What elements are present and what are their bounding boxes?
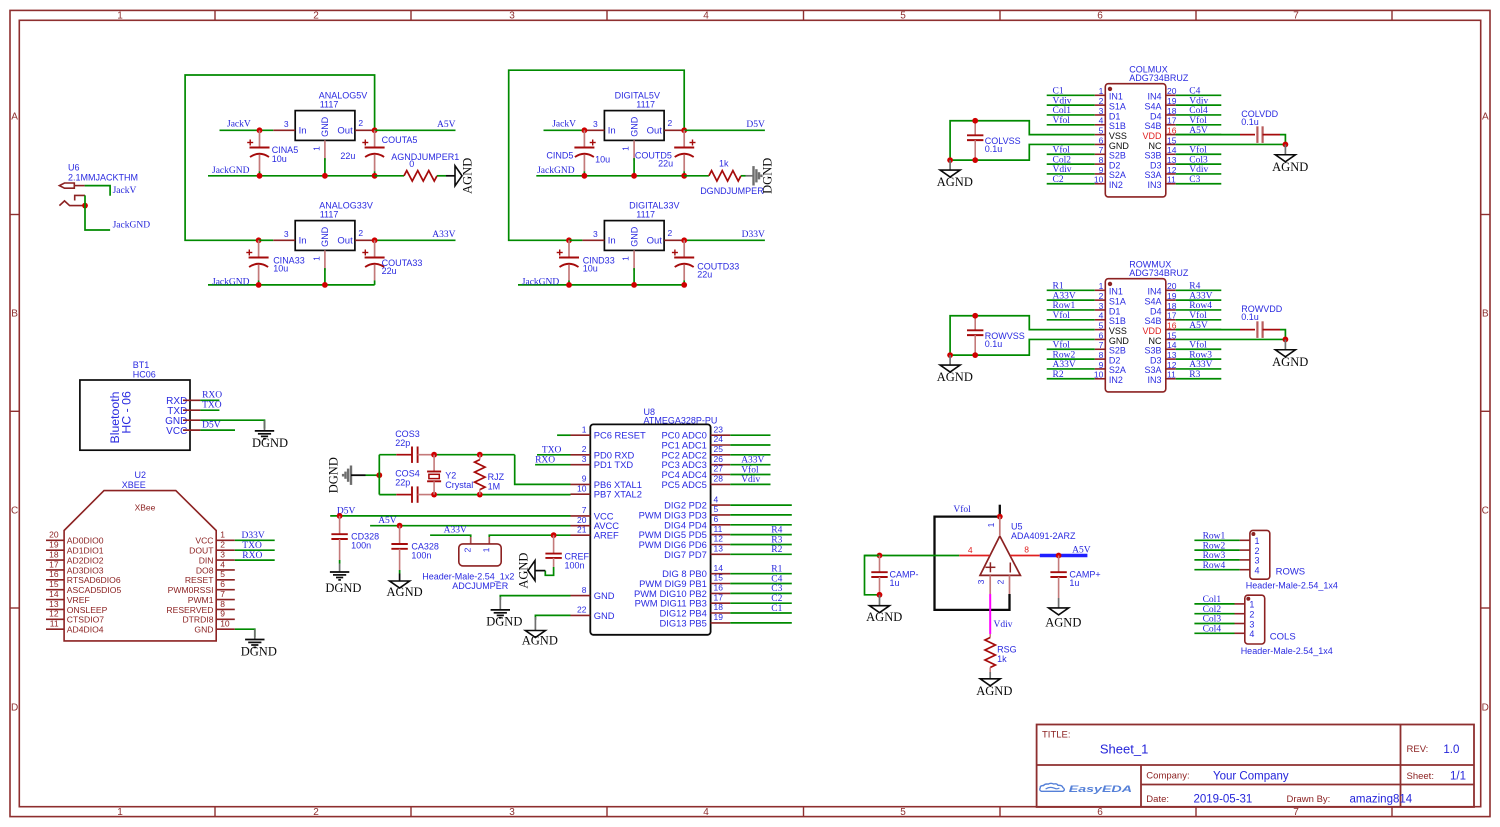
svg-text:12: 12 bbox=[49, 609, 59, 619]
wire U8 pin 6 bbox=[730, 524, 792, 526]
svg-text:JackGND: JackGND bbox=[113, 221, 151, 231]
svg-text:7: 7 bbox=[1099, 145, 1104, 155]
svg-text:AD2DIO2: AD2DIO2 bbox=[67, 555, 104, 565]
svg-text:D1: D1 bbox=[1109, 111, 1121, 121]
svg-text:Row3: Row3 bbox=[1189, 350, 1212, 360]
svg-text:DGND: DGND bbox=[325, 581, 361, 595]
svg-text:Col4: Col4 bbox=[1203, 625, 1222, 635]
svg-text:R3: R3 bbox=[1189, 370, 1200, 380]
pin 6 GND of ROWMUX bbox=[1095, 330, 1130, 345]
net label Vfol at COLMUX pin 7 bbox=[1053, 144, 1071, 155]
svg-text:22: 22 bbox=[577, 605, 587, 615]
wire JackV to DIGITAL5V In bbox=[544, 129, 583, 131]
junction COUTD33 top bbox=[681, 237, 687, 243]
pin 14 S3B of COLMUX bbox=[1144, 145, 1176, 160]
svg-text:D5V: D5V bbox=[202, 421, 221, 431]
wire ROWMUX VSS to AGND bbox=[949, 355, 951, 365]
svg-text:A33V: A33V bbox=[444, 526, 467, 536]
wire D5V feedback loop to DIGITAL33V input bbox=[509, 70, 685, 240]
svg-text:20: 20 bbox=[49, 530, 59, 540]
svg-text:1u: 1u bbox=[890, 578, 900, 588]
pin 26 PC3 ADC3 of U8 bbox=[662, 454, 731, 470]
pin 3 PD1 TXD of U8 bbox=[571, 454, 634, 470]
svg-text:7: 7 bbox=[1293, 807, 1299, 818]
svg-text:DGND: DGND bbox=[486, 615, 522, 629]
ground AGND at U8 pin 22 bbox=[522, 631, 558, 648]
net label A5V bbox=[437, 120, 456, 130]
net label Vfol at ROWMUX pin 17 bbox=[1189, 310, 1207, 321]
svg-text:GND: GND bbox=[320, 226, 330, 247]
svg-text:D: D bbox=[1482, 703, 1489, 714]
svg-text:100n: 100n bbox=[411, 550, 431, 560]
svg-text:17: 17 bbox=[1167, 116, 1177, 126]
net label C4 at COLMUX pin 20 bbox=[1189, 87, 1200, 97]
svg-text:19: 19 bbox=[1167, 291, 1177, 301]
wire U8 pin 18 bbox=[730, 612, 792, 614]
svg-text:8: 8 bbox=[582, 585, 587, 595]
wire U8 pin 25 bbox=[730, 454, 770, 456]
svg-text:VSS: VSS bbox=[1109, 326, 1127, 336]
svg-text:Col1: Col1 bbox=[1053, 106, 1072, 116]
title text Company bbox=[1146, 770, 1289, 782]
svg-text:1k: 1k bbox=[997, 654, 1007, 664]
wire Col4 to COLS pin 4 bbox=[1194, 632, 1234, 634]
svg-text:AD4DIO4: AD4DIO4 bbox=[67, 625, 104, 635]
svg-text:C4: C4 bbox=[1189, 87, 1200, 97]
svg-text:1: 1 bbox=[1099, 86, 1104, 96]
svg-text:PC5 ADC5: PC5 ADC5 bbox=[662, 479, 707, 490]
wire U8 pin 17 bbox=[730, 602, 792, 604]
pin 12 CTSDIO7 of U2 bbox=[46, 609, 104, 625]
svg-text:18: 18 bbox=[714, 602, 724, 612]
capacitor CIND33 10u bbox=[557, 240, 615, 285]
svg-text:DGND: DGND bbox=[327, 457, 341, 493]
pin 1 VCC of U2 bbox=[195, 530, 234, 546]
svg-text:Vdiv: Vdiv bbox=[741, 475, 760, 485]
svg-text:Sheet:: Sheet: bbox=[1407, 771, 1434, 782]
wire A5V to COLMUX pin 16 bbox=[1176, 134, 1222, 136]
wire C1 to COLMUX pin 1 bbox=[1047, 94, 1095, 96]
connector U6 2.1MMJACKTHM bbox=[59, 163, 138, 206]
header ROWS Header-Male-2.54_1x4 bbox=[1246, 530, 1338, 590]
capacitor CINA33 10u bbox=[246, 240, 304, 285]
svg-text:Vdiv: Vdiv bbox=[994, 620, 1013, 630]
wire CAMP- to U5 pin 4 bbox=[865, 555, 960, 557]
wire JackGND digital 5V rail bbox=[536, 175, 684, 177]
svg-text:GND: GND bbox=[594, 610, 615, 621]
net label Vfol at COLMUX pin 4 bbox=[1053, 115, 1071, 126]
net label JackGND at U6 bbox=[113, 221, 151, 231]
svg-text:10: 10 bbox=[220, 619, 230, 629]
svg-text:TXO: TXO bbox=[202, 401, 222, 411]
svg-text:10u: 10u bbox=[583, 264, 598, 274]
svg-text:IN3: IN3 bbox=[1147, 180, 1161, 190]
svg-text:D2: D2 bbox=[1109, 355, 1121, 365]
net label Vfol at COLMUX pin 14 bbox=[1189, 144, 1207, 155]
wire Row1 to ROWMUX pin 3 bbox=[1047, 309, 1095, 311]
pin 12 S3A of ROWMUX bbox=[1144, 360, 1176, 375]
junction COLVDD NC bbox=[1283, 142, 1289, 148]
wire JackGND from U6 bbox=[85, 195, 110, 230]
svg-text:D33V: D33V bbox=[242, 531, 265, 541]
wire AREF to ADCJUMPER pin 1 bbox=[489, 535, 570, 544]
svg-text:Col2: Col2 bbox=[1203, 605, 1222, 615]
wire A33V to ADCJUMPER pin 2 bbox=[430, 535, 471, 544]
svg-text:S4A: S4A bbox=[1144, 296, 1161, 306]
net label Vdiv at U8 pin 28 bbox=[741, 475, 760, 485]
svg-text:C3: C3 bbox=[771, 584, 782, 594]
pin 11 AD4DIO4 of U2 bbox=[46, 619, 104, 635]
wire Row3 to ROWS pin 3 bbox=[1194, 559, 1239, 561]
net label JackV at DIGITAL5V bbox=[552, 119, 576, 129]
svg-text:AD1DIO1: AD1DIO1 bbox=[67, 546, 104, 556]
svg-text:23: 23 bbox=[714, 424, 724, 434]
net label Col3 bbox=[1203, 615, 1222, 625]
net label C2 at U8 pin 17 bbox=[771, 594, 782, 604]
svg-text:A33V: A33V bbox=[1053, 291, 1076, 301]
pin 6 PWM0RSSI of U2 bbox=[168, 579, 235, 595]
svg-text:9: 9 bbox=[1099, 360, 1104, 370]
pin 6 DIG4 PD4 of U8 bbox=[664, 514, 730, 530]
wire D5V output bbox=[684, 129, 765, 131]
wire A33V to ROWMUX pin 12 bbox=[1176, 368, 1222, 370]
svg-text:10: 10 bbox=[577, 483, 587, 493]
svg-text:17: 17 bbox=[1167, 311, 1177, 321]
svg-text:D: D bbox=[11, 703, 18, 714]
capacitor COS4 22p bbox=[395, 468, 434, 502]
svg-text:XBEE: XBEE bbox=[122, 480, 146, 490]
net label C2 at COLMUX pin 10 bbox=[1053, 175, 1064, 185]
wire XTAL1 jog to PB6 bbox=[515, 455, 571, 485]
net label R1 at ROWMUX pin 1 bbox=[1053, 282, 1064, 292]
pin 9 PB6 XTAL1 of U8 bbox=[571, 474, 642, 490]
svg-text:26: 26 bbox=[714, 454, 724, 464]
svg-text:R4: R4 bbox=[771, 525, 782, 535]
title text TITLE bbox=[1042, 730, 1071, 741]
svg-text:AGND: AGND bbox=[387, 585, 423, 599]
svg-text:1: 1 bbox=[312, 256, 322, 261]
net label Vfol at COLMUX pin 17 bbox=[1189, 115, 1207, 126]
svg-text:8: 8 bbox=[1099, 155, 1104, 165]
junction CINA5 top bbox=[257, 127, 263, 133]
pin 27 PC4 ADC4 of U8 bbox=[662, 464, 731, 480]
svg-text:AGND: AGND bbox=[1272, 355, 1308, 369]
pin 1 of ROWS header bbox=[1240, 536, 1260, 546]
svg-text:Out: Out bbox=[647, 126, 663, 137]
net label A33V at ROWMUX pin 19 bbox=[1189, 291, 1212, 301]
net label Row2 bbox=[1203, 541, 1226, 551]
svg-text:JackGND: JackGND bbox=[212, 166, 250, 176]
pin 8 D2 of ROWMUX bbox=[1095, 350, 1121, 365]
svg-text:3: 3 bbox=[1249, 619, 1254, 629]
pin 7 S2B of COLMUX bbox=[1095, 145, 1126, 160]
svg-text:Y2: Y2 bbox=[445, 471, 456, 481]
svg-text:JackV: JackV bbox=[113, 186, 137, 196]
svg-text:6: 6 bbox=[220, 579, 225, 589]
net label Col4 bbox=[1203, 625, 1222, 635]
svg-text:2: 2 bbox=[313, 807, 319, 818]
svg-text:16: 16 bbox=[714, 583, 724, 593]
wire A5V output bbox=[375, 129, 456, 131]
svg-text:12: 12 bbox=[1167, 165, 1177, 175]
wire R1 to ROWMUX pin 1 bbox=[1047, 289, 1095, 291]
wire TXO to U8 PD0 bbox=[537, 454, 571, 456]
svg-text:0.1u: 0.1u bbox=[1241, 117, 1259, 127]
svg-text:20: 20 bbox=[577, 515, 587, 525]
ground AGND at CA328 bbox=[387, 581, 423, 599]
svg-text:S3B: S3B bbox=[1144, 151, 1161, 161]
net label Vfol at U5 bbox=[953, 504, 971, 515]
svg-text:3: 3 bbox=[509, 807, 515, 818]
svg-text:A33V: A33V bbox=[1189, 360, 1212, 370]
ground AGND at COLVDD bbox=[1272, 155, 1308, 174]
net label D5V at U8 bbox=[337, 506, 356, 516]
ground DGND digital jumper bbox=[754, 158, 775, 194]
net label RXO at U2 bbox=[242, 551, 262, 561]
wire CD328 to DGND bbox=[339, 560, 341, 572]
svg-text:13: 13 bbox=[714, 544, 724, 554]
svg-text:R1: R1 bbox=[771, 565, 782, 575]
wire NC to COLVDD bbox=[1176, 143, 1286, 145]
pin 2 of COLS header bbox=[1235, 610, 1255, 620]
svg-text:3: 3 bbox=[1099, 106, 1104, 116]
svg-text:3: 3 bbox=[1255, 556, 1260, 566]
wire U8 pin 12 bbox=[730, 544, 792, 546]
svg-text:S1B: S1B bbox=[1109, 121, 1126, 131]
wire D5V to BT1 VCC bbox=[200, 429, 235, 431]
pin 12 PWM DIG6 PD6 of U8 bbox=[639, 534, 731, 550]
svg-text:Row1: Row1 bbox=[1203, 532, 1226, 542]
pin 9 DTRDI8 of U2 bbox=[182, 609, 234, 625]
capacitor CREF 100n bbox=[545, 535, 589, 570]
net label A33V at ROWMUX pin 2 bbox=[1053, 291, 1076, 301]
regulator DIGITAL33V 1117 bbox=[582, 201, 683, 271]
capacitor COLVDD 0.1u bbox=[1240, 109, 1285, 145]
svg-text:1u: 1u bbox=[1069, 578, 1079, 588]
net label D5V bbox=[746, 120, 765, 130]
junction CIND33 bottom bbox=[566, 282, 572, 288]
header ADCJUMPER Header-Male-2.54_1x2 bbox=[422, 544, 514, 591]
svg-text:5: 5 bbox=[900, 807, 906, 818]
pin 6 GND of COLMUX bbox=[1095, 135, 1130, 150]
svg-text:S2B: S2B bbox=[1109, 346, 1126, 356]
svg-text:2: 2 bbox=[220, 540, 225, 550]
pin 19 S4A of COLMUX bbox=[1144, 96, 1176, 111]
svg-text:1: 1 bbox=[621, 256, 631, 261]
net label A33V at ROWMUX pin 12 bbox=[1189, 360, 1212, 370]
junction DIGITAL5V out bbox=[681, 127, 687, 133]
ground DGND at crystal bbox=[327, 457, 366, 493]
pin 2 DOUT of U2 bbox=[189, 540, 235, 556]
wire XTAL1 top bbox=[379, 454, 514, 456]
svg-text:28: 28 bbox=[714, 474, 724, 484]
svg-text:R1: R1 bbox=[1053, 282, 1064, 292]
wire U8 pin 15 bbox=[730, 583, 792, 585]
svg-text:Vfol: Vfol bbox=[741, 464, 759, 475]
svg-text:RJZ: RJZ bbox=[488, 472, 505, 482]
ground DGND at U2 bbox=[241, 640, 277, 659]
pin 22 GND of U8 bbox=[571, 605, 615, 621]
svg-text:16: 16 bbox=[1167, 321, 1177, 331]
svg-text:Vfol: Vfol bbox=[1189, 115, 1207, 126]
svg-text:15: 15 bbox=[1167, 330, 1177, 340]
pin 25 PC2 ADC2 of U8 bbox=[662, 444, 731, 460]
wire Col1 to COLMUX pin 3 bbox=[1047, 114, 1095, 116]
svg-text:22u: 22u bbox=[340, 151, 355, 161]
svg-text:AD0DIO0: AD0DIO0 bbox=[67, 536, 104, 546]
pin 5 PWM DIG3 PD3 of U8 bbox=[639, 504, 731, 520]
svg-text:12: 12 bbox=[714, 534, 724, 544]
net label C3 at U8 pin 16 bbox=[771, 584, 782, 594]
net label Col2 bbox=[1203, 605, 1222, 615]
svg-text:A: A bbox=[11, 112, 18, 123]
svg-text:Vfol: Vfol bbox=[1189, 310, 1207, 321]
wire U8 pin 4 bbox=[730, 504, 792, 506]
svg-text:Out: Out bbox=[647, 236, 663, 247]
svg-text:R3: R3 bbox=[771, 535, 782, 545]
svg-text:CIND5: CIND5 bbox=[546, 151, 573, 161]
wire Vdiv to COLMUX pin 12 bbox=[1176, 173, 1222, 175]
net label A33V bbox=[432, 230, 455, 240]
svg-text:A: A bbox=[1482, 112, 1489, 123]
svg-text:13: 13 bbox=[49, 599, 59, 609]
svg-text:ROWS: ROWS bbox=[1276, 567, 1306, 578]
svg-text:ONSLEEP: ONSLEEP bbox=[67, 605, 108, 615]
module U2 XBEE outline bbox=[64, 470, 216, 641]
wire Row2 to ROWS pin 2 bbox=[1194, 549, 1239, 551]
net label D33V at U2 bbox=[242, 531, 265, 541]
wire U8 pin 14 bbox=[730, 573, 792, 575]
pin 13 ONSLEEP of U2 bbox=[46, 599, 108, 615]
net label JackV at U6 bbox=[113, 186, 137, 196]
svg-text:2: 2 bbox=[1255, 546, 1260, 556]
pin 1 IN1 of ROWMUX bbox=[1095, 281, 1123, 296]
wire D33V to U2 VCC bbox=[235, 539, 275, 541]
svg-text:Header-Male-2.54_1x2: Header-Male-2.54_1x2 bbox=[422, 572, 514, 582]
svg-text:19: 19 bbox=[49, 540, 59, 550]
pin 4 of ROWS header bbox=[1240, 566, 1260, 576]
net label A33V at U8 pin 26 bbox=[741, 456, 764, 466]
svg-text:AGND: AGND bbox=[516, 553, 530, 589]
wire U8 pin 24 bbox=[730, 444, 770, 446]
junction ROWVDD NC bbox=[1283, 337, 1289, 343]
svg-text:IN1: IN1 bbox=[1109, 92, 1123, 102]
junction CIND5 top bbox=[582, 127, 588, 133]
svg-text:PD1 TXD: PD1 TXD bbox=[594, 459, 634, 470]
junction COUTD5 bottom bbox=[681, 173, 687, 179]
pin 17 S4B of COLMUX bbox=[1144, 116, 1176, 131]
wire U8 GND pin 22 to AGND bbox=[535, 615, 570, 630]
ground AGND analog jumper bbox=[455, 158, 475, 194]
regulator ANALOG33V 1117 bbox=[273, 201, 374, 271]
svg-text:9: 9 bbox=[220, 609, 225, 619]
junction DIGITAL33V GND bbox=[631, 282, 637, 288]
svg-text:Col3: Col3 bbox=[1189, 155, 1208, 165]
svg-text:AREF: AREF bbox=[594, 530, 619, 541]
svg-text:A5V: A5V bbox=[437, 120, 456, 130]
pin 10 IN2 of COLMUX bbox=[1094, 175, 1123, 190]
wire Vdiv magenta at U5 pin 3 bbox=[989, 594, 991, 634]
svg-text:COLS: COLS bbox=[1270, 631, 1296, 642]
ground DGND at BT1 bbox=[252, 431, 288, 450]
wire DGNDJUMPER to DGND bbox=[741, 175, 753, 177]
wire Row2 to ROWMUX pin 8 bbox=[1047, 358, 1095, 360]
svg-text:VREF: VREF bbox=[67, 595, 90, 605]
wire A5V rail to U8 AVCC bbox=[370, 525, 570, 527]
svg-text:Header-Male-2.54_1x4: Header-Male-2.54_1x4 bbox=[1246, 581, 1338, 591]
wire DGND to crystal net bbox=[366, 474, 380, 476]
wire U8 GND pin 8 to DGND bbox=[500, 596, 570, 610]
wire Vdiv to COLMUX pin 9 bbox=[1047, 173, 1095, 175]
pin 12 S3A of COLMUX bbox=[1144, 165, 1176, 180]
wire XTAL2 bottom bbox=[379, 494, 570, 496]
svg-text:S3A: S3A bbox=[1144, 365, 1161, 375]
net label JackGND at ANALOG33V bbox=[212, 278, 250, 288]
svg-text:4: 4 bbox=[1099, 311, 1104, 321]
net label Row2 at ROWMUX pin 8 bbox=[1053, 350, 1076, 360]
pin 24 PC1 ADC1 of U8 bbox=[662, 434, 731, 450]
wire R4 to ROWMUX pin 20 bbox=[1176, 289, 1222, 291]
junction COLMUX AGND corner bbox=[947, 157, 953, 163]
wire Vfol to ROWMUX pin 7 bbox=[1047, 348, 1095, 350]
svg-text:ADG734BRUZ: ADG734BRUZ bbox=[1129, 268, 1189, 278]
svg-text:2: 2 bbox=[996, 579, 1006, 584]
svg-text:4: 4 bbox=[1249, 629, 1254, 639]
svg-text:C3: C3 bbox=[1189, 175, 1200, 185]
svg-text:D4: D4 bbox=[1150, 306, 1162, 316]
capacitor CAMP+ 1u bbox=[1050, 556, 1100, 599]
wire NC to ROWVDD bbox=[1176, 338, 1286, 340]
pin 19 DIG13 PB5 of U8 bbox=[659, 612, 730, 628]
svg-text:2: 2 bbox=[1099, 96, 1104, 106]
pin 17 S4B of ROWMUX bbox=[1144, 311, 1176, 326]
wire Row3 to ROWMUX pin 13 bbox=[1176, 358, 1222, 360]
net label R3 at U8 pin 12 bbox=[771, 535, 782, 545]
svg-text:3: 3 bbox=[593, 119, 598, 129]
wire CIND33 to In bbox=[569, 239, 582, 241]
svg-text:In: In bbox=[299, 126, 307, 137]
wire JackGND analog 33V rail bbox=[208, 284, 375, 286]
net label A33V at ADCJUMPER bbox=[444, 526, 467, 536]
net label JackGND at ANALOG5V bbox=[212, 166, 250, 176]
svg-text:19: 19 bbox=[714, 612, 724, 622]
svg-text:4: 4 bbox=[703, 807, 709, 818]
net label A5V at ROWMUX pin 16 bbox=[1189, 321, 1208, 331]
title text Date bbox=[1146, 793, 1252, 805]
svg-text:21: 21 bbox=[577, 524, 587, 534]
net label RXO at U8 bbox=[535, 456, 555, 466]
svg-text:11: 11 bbox=[1167, 175, 1176, 185]
svg-text:S4B: S4B bbox=[1144, 316, 1161, 326]
svg-text:Row2: Row2 bbox=[1203, 541, 1226, 551]
wire U8 pin 19 bbox=[730, 622, 792, 624]
wire Vfol to COLMUX pin 17 bbox=[1176, 124, 1222, 126]
svg-text:13: 13 bbox=[1167, 350, 1177, 360]
svg-text:GND: GND bbox=[194, 625, 213, 635]
svg-text:0.1u: 0.1u bbox=[1241, 312, 1259, 322]
svg-text:Sheet_1: Sheet_1 bbox=[1100, 742, 1148, 757]
wire A5V at COLMUX VDD bbox=[1176, 134, 1240, 136]
svg-text:1.0: 1.0 bbox=[1443, 744, 1459, 756]
wire JackGND to AGNDJUMPER1 bbox=[375, 175, 404, 177]
junction Y2 bottom bbox=[431, 492, 437, 498]
wire A33V to ROWMUX pin 9 bbox=[1047, 368, 1095, 370]
svg-text:20: 20 bbox=[1167, 281, 1177, 291]
junction CAMP+ top bbox=[1056, 553, 1062, 559]
net label Vdiv at COLMUX pin 19 bbox=[1189, 96, 1208, 106]
net label TXO at U8 bbox=[542, 446, 562, 456]
svg-text:1: 1 bbox=[1249, 600, 1254, 610]
